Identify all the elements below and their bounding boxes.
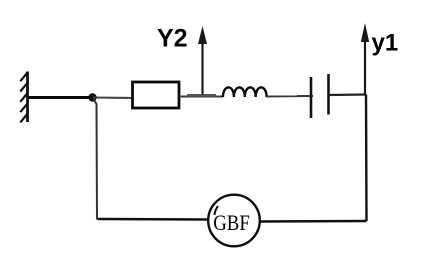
wire capacitor to right node xyxy=(329,93,367,96)
wire bottom right (GBF to right corner) xyxy=(260,220,367,223)
wire right vertical xyxy=(365,95,368,222)
node A junction dot xyxy=(88,93,96,101)
svg-text:Y2: Y2 xyxy=(157,25,188,53)
wire wall to node xyxy=(28,96,92,99)
wire inductor to capacitor xyxy=(267,95,313,98)
capacitor C xyxy=(311,74,329,118)
resistor R xyxy=(133,82,180,108)
wire node to resistor xyxy=(93,97,133,100)
probe arrow Y2 xyxy=(198,26,207,95)
wire left vertical xyxy=(94,99,98,220)
wire bottom left (left corner to GBF) xyxy=(98,218,209,221)
wire tick at Y2 arrow base xyxy=(187,94,216,97)
ground xyxy=(20,72,27,123)
probe arrow y1 xyxy=(361,23,369,95)
svg-text:y1: y1 xyxy=(372,30,399,57)
generator GBF xyxy=(208,195,260,247)
wire resistor to inductor xyxy=(179,96,223,98)
svg-text:GBF: GBF xyxy=(213,210,250,235)
inductor L xyxy=(223,87,267,97)
